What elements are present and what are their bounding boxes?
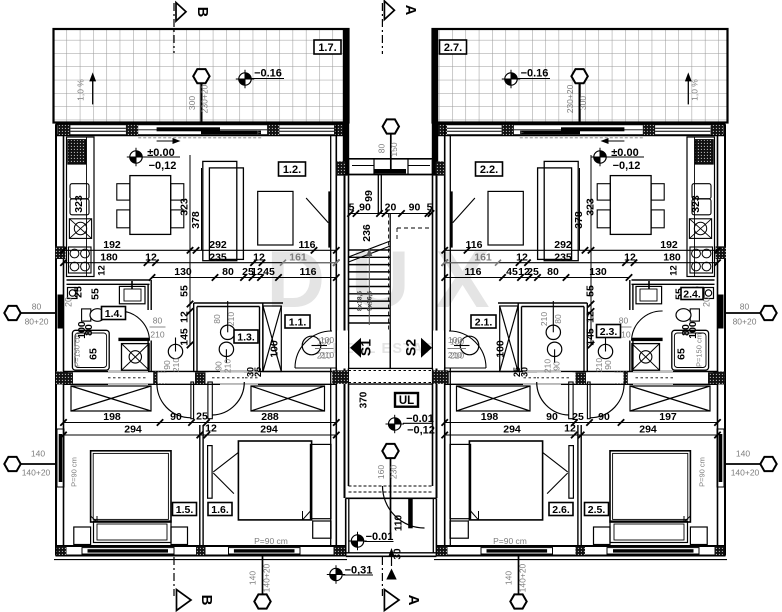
svg-text:210: 210	[594, 358, 604, 372]
svg-text:140+20: 140+20	[262, 563, 272, 592]
dim row 1 (192 292 116)	[445, 249, 718, 251]
porch entry area	[349, 485, 433, 487]
sofa	[544, 161, 578, 260]
svg-text:25: 25	[196, 411, 208, 423]
bedroom window left wall	[57, 429, 64, 487]
svg-text:1.2.: 1.2.	[283, 164, 301, 176]
dim row 2 (180 12 235 12 161)	[64, 262, 337, 264]
level -0.16 left terrace	[236, 70, 254, 88]
top outer wall	[436, 123, 726, 125]
svg-text:140+20: 140+20	[518, 563, 528, 592]
hexagon marker left terrace	[200, 84, 202, 123]
svg-text:65: 65	[88, 348, 100, 360]
svg-text:90: 90	[546, 411, 558, 423]
level +-0.00 -0.12 left living	[127, 148, 145, 166]
svg-text:130: 130	[589, 266, 607, 278]
door openings dashed in under-wall	[108, 371, 148, 373]
svg-text:25: 25	[572, 411, 584, 423]
level -0.01 porch	[348, 532, 366, 550]
dim 110 porch	[406, 486, 408, 546]
svg-text:180: 180	[663, 251, 681, 263]
wall band below landing	[349, 367, 433, 369]
WC toilet	[82, 309, 91, 321]
svg-text:80+20: 80+20	[733, 317, 757, 327]
room label 1.3	[234, 330, 258, 343]
svg-text:161: 161	[474, 251, 492, 263]
svg-text:F: F	[257, 130, 261, 136]
top wall window living	[447, 127, 502, 129]
wardrobe bedroom 1	[71, 386, 151, 411]
svg-text:80: 80	[377, 144, 387, 154]
svg-text:25: 25	[253, 367, 263, 377]
shower	[122, 344, 150, 371]
svg-text:150: 150	[389, 142, 399, 156]
porch bottom	[346, 552, 437, 554]
stair walk line arrow	[368, 252, 370, 325]
svg-text:323: 323	[585, 198, 597, 216]
svg-text:1,0 %: 1,0 %	[76, 79, 86, 101]
door from stair landing to hall	[337, 331, 348, 369]
svg-text:1.6.: 1.6.	[211, 504, 229, 516]
svg-text:116: 116	[299, 239, 316, 251]
terrace outline left	[54, 29, 349, 123]
dim row 3 (130 80 25 12 45 116)	[445, 277, 629, 279]
piers at stair doors	[332, 371, 345, 383]
dining table	[610, 176, 651, 235]
hall closet crossed	[263, 306, 281, 372]
svg-text:−0,12: −0,12	[613, 160, 641, 172]
fridge	[68, 140, 86, 165]
room label 2.7	[440, 40, 467, 54]
svg-text:80: 80	[222, 266, 234, 278]
svg-text:288: 288	[261, 411, 279, 423]
bath2 washbasin circle	[546, 325, 560, 339]
top wall piers	[57, 125, 70, 135]
section line A bottom	[381, 557, 383, 596]
entry threshold verticals	[373, 159, 375, 175]
stair upper dim line	[349, 213, 433, 215]
right wall piers	[336, 161, 348, 175]
svg-text:90: 90	[170, 411, 182, 423]
bed bedroom 2	[238, 441, 311, 520]
door from stair landing to hall	[433, 331, 444, 369]
level +-0.00 -0.12 right living	[591, 148, 609, 166]
svg-text:12: 12	[251, 266, 263, 278]
bottom outer wall	[436, 545, 726, 547]
stair well inner wall	[377, 175, 379, 214]
pillow corner	[684, 516, 690, 522]
doormat UL	[395, 393, 418, 407]
svg-text:80: 80	[212, 314, 222, 324]
svg-text:236: 236	[361, 224, 373, 242]
svg-text:−0.16: −0.16	[521, 68, 549, 80]
arrow entry right living	[604, 140, 624, 142]
bedroom 2 bottom window	[229, 548, 301, 554]
section line B bottom	[173, 557, 175, 596]
hall circle fixture	[598, 344, 612, 358]
svg-text:55: 55	[90, 288, 102, 300]
bed bedroom 1	[91, 451, 171, 522]
top wall piers	[711, 125, 724, 135]
svg-text:80+20: 80+20	[25, 317, 49, 327]
svg-text:300: 300	[187, 96, 197, 110]
closet door bedroom 2	[569, 446, 574, 499]
wardrobe bedroom 2	[457, 386, 531, 411]
svg-text:P=90 cm: P=90 cm	[493, 536, 527, 546]
svg-text:235: 235	[209, 251, 227, 263]
svg-text:145: 145	[179, 328, 191, 346]
top wall sliding door	[157, 127, 220, 131]
svg-text:80: 80	[153, 316, 163, 326]
dim row bedrooms (198 90 25 288)	[64, 422, 337, 424]
ground line below building	[434, 559, 727, 561]
stair flight steps	[349, 249, 391, 251]
svg-text:12: 12	[624, 251, 636, 263]
svg-text:116: 116	[466, 239, 483, 251]
room label 1.6	[208, 503, 232, 516]
terrace slope arrow 1.0%	[92, 76, 94, 104]
svg-text:145: 145	[585, 328, 597, 346]
hexagon right wall upper	[725, 312, 761, 314]
svg-text:1.4.: 1.4.	[105, 308, 123, 320]
svg-text:B: B	[194, 7, 210, 17]
svg-text:80: 80	[553, 314, 563, 324]
bath2 washbasin circle	[221, 325, 235, 339]
svg-text:198: 198	[481, 411, 499, 423]
svg-text:S2: S2	[403, 339, 419, 356]
svg-text:378: 378	[190, 211, 202, 229]
svg-text:55: 55	[585, 285, 597, 297]
left wall pier	[56, 372, 68, 385]
svg-text:2.1.: 2.1.	[475, 316, 493, 328]
dim row bedrooms (198 90 25 288)	[445, 422, 718, 424]
washing machine	[72, 330, 109, 370]
svg-text:12: 12	[97, 265, 108, 276]
pillow corner 2	[471, 511, 479, 520]
svg-text:90: 90	[603, 360, 613, 370]
svg-text:140: 140	[736, 449, 750, 459]
room label 2.4	[681, 288, 703, 300]
top outer wall	[56, 123, 346, 125]
entry landing top band	[349, 158, 433, 160]
bath 2 walls	[193, 303, 195, 372]
interior wall under bath block	[64, 371, 337, 373]
svg-text:2.7.: 2.7.	[444, 42, 462, 54]
bath 2 walls	[586, 303, 588, 372]
svg-text:S1: S1	[358, 339, 374, 356]
door swing line living	[453, 198, 475, 223]
svg-text:80: 80	[740, 302, 750, 312]
closet door bedroom 2	[208, 446, 213, 499]
bath1 door arc	[632, 311, 663, 341]
kitchen upper cabinets	[70, 184, 89, 199]
svg-text:12: 12	[518, 266, 530, 278]
svg-text:210: 210	[223, 359, 233, 373]
svg-text:12: 12	[179, 311, 191, 323]
wall between bedrooms	[199, 425, 201, 546]
room label 2.2	[476, 162, 503, 176]
terrace outline right	[433, 29, 728, 123]
bedroom door arcs	[157, 382, 191, 418]
dashed insulation line under top wall	[519, 137, 643, 139]
level -0.16 right terrace	[502, 70, 520, 88]
bedroom 2 bottom window	[481, 548, 553, 554]
dim row 2 (180 12 235 12 161)	[445, 262, 718, 264]
svg-text:12: 12	[145, 251, 157, 263]
bath 1 right wall	[147, 284, 149, 310]
hall washbasin at stair door	[302, 336, 321, 355]
svg-text:A: A	[405, 595, 422, 606]
shower	[632, 344, 660, 371]
svg-text:30: 30	[393, 548, 404, 560]
svg-text:370: 370	[359, 391, 370, 408]
bedroom 1 bottom window	[82, 548, 174, 554]
washbasin cabinet	[636, 286, 662, 303]
boiler symbol	[704, 288, 714, 299]
svg-text:160: 160	[376, 465, 386, 479]
hexagon left wall upper	[20, 312, 56, 314]
section flag A bottom	[384, 590, 399, 611]
room label 1.1	[285, 315, 310, 328]
boiler symbol	[68, 288, 78, 299]
svg-text:12: 12	[669, 265, 680, 276]
svg-text:294: 294	[260, 424, 278, 436]
stove 4 burners	[69, 247, 92, 273]
landing piers	[340, 162, 346, 174]
svg-text:161: 161	[289, 251, 307, 263]
bedroom door openings in band	[588, 372, 624, 383]
top wall window kitchen	[70, 127, 126, 129]
svg-text:80: 80	[32, 302, 42, 312]
kitchen sink	[69, 219, 91, 239]
porch entry door leaf	[408, 498, 413, 528]
svg-text:80: 80	[83, 324, 95, 336]
bedroom door arcs	[590, 382, 624, 418]
svg-text:100: 100	[448, 335, 462, 345]
svg-text:1.5.: 1.5.	[176, 504, 194, 516]
svg-text:192: 192	[103, 239, 121, 251]
svg-text:UL: UL	[399, 395, 414, 407]
top wall window kitchen	[655, 127, 711, 129]
hexagon bottom left of porch	[262, 556, 264, 594]
pillow corner	[91, 516, 97, 522]
svg-text:140: 140	[248, 571, 258, 585]
hall washbasin at stair door	[460, 336, 479, 355]
svg-text:140: 140	[31, 449, 45, 459]
dim row 1 (192 292 116)	[64, 249, 337, 251]
svg-text:323: 323	[179, 198, 191, 216]
room label 1.5	[173, 503, 197, 516]
S1 arrow	[350, 338, 361, 358]
svg-text:20: 20	[385, 202, 397, 214]
stair landing S1 S2	[389, 330, 391, 384]
bottom wall piers	[57, 546, 67, 555]
svg-text:−0.16: −0.16	[254, 68, 282, 80]
hall closet crossed	[500, 306, 518, 372]
svg-text:210: 210	[150, 330, 164, 340]
svg-text:100: 100	[320, 335, 334, 345]
svg-text:12: 12	[205, 423, 217, 435]
svg-text:130: 130	[174, 266, 192, 278]
svg-text:210: 210	[448, 350, 462, 360]
hexagon bottom right of porch	[518, 556, 520, 594]
svg-text:P=90 cm: P=90 cm	[698, 457, 707, 487]
hexagon marker right terrace	[578, 84, 580, 123]
svg-text:210: 210	[539, 312, 549, 326]
dashed insulation line under top wall	[138, 137, 262, 139]
section flag A top	[384, 1, 394, 20]
svg-text:235: 235	[554, 251, 572, 263]
bedroom door leafs	[587, 382, 590, 419]
svg-text:55: 55	[179, 285, 191, 297]
svg-text:20: 20	[64, 297, 74, 307]
left outer wall	[55, 124, 57, 555]
upper flight dashed	[388, 214, 390, 331]
svg-text:A: A	[402, 5, 418, 16]
bed bedroom 1	[610, 451, 690, 522]
svg-text:2.3.: 2.3.	[600, 326, 618, 338]
level -0.31 below porch	[327, 565, 345, 583]
dining table	[130, 176, 171, 235]
right wall to shaft	[444, 124, 446, 546]
svg-text:2.6.: 2.6.	[552, 504, 570, 516]
left wall pier	[713, 372, 725, 385]
vertical dims near halls	[590, 250, 592, 345]
svg-text:292: 292	[554, 239, 572, 251]
bath 1 top wall	[632, 279, 715, 281]
sofa	[203, 161, 237, 260]
entry door in left wall	[58, 295, 65, 329]
svg-text:100: 100	[268, 340, 280, 358]
section flag B top	[176, 3, 186, 22]
svg-text:25: 25	[73, 286, 85, 298]
svg-text:1.3.: 1.3.	[237, 331, 255, 343]
WC toilet	[690, 309, 699, 321]
room label 1.7	[314, 40, 341, 54]
bath 1 right wall	[632, 284, 634, 310]
svg-text:12: 12	[564, 423, 576, 435]
porch door arc	[383, 486, 425, 528]
svg-text:140: 140	[504, 571, 514, 585]
chairs	[651, 184, 664, 200]
svg-text:90: 90	[409, 202, 421, 214]
bath2 wc circle	[219, 342, 233, 356]
entry door in left wall	[717, 295, 724, 329]
wardrobe bedroom 2	[251, 386, 325, 411]
svg-text:90: 90	[598, 411, 610, 423]
bedroom window left wall	[717, 429, 724, 487]
svg-text:65: 65	[676, 348, 688, 360]
svg-text:323: 323	[73, 195, 85, 213]
svg-text:90: 90	[552, 361, 562, 371]
room label 2.1	[471, 315, 496, 328]
chairs	[117, 184, 130, 200]
svg-text:2.4.: 2.4.	[683, 288, 701, 300]
washing machine	[672, 330, 709, 370]
hexagon right wall lower	[725, 463, 761, 465]
washbasin cabinet	[119, 286, 145, 303]
coffee table	[488, 191, 523, 245]
svg-text:300: 300	[578, 96, 588, 110]
bedroom door openings in band	[158, 372, 194, 383]
svg-text:80: 80	[680, 324, 692, 336]
svg-text:2.5.: 2.5.	[588, 504, 606, 516]
kitchen upper cabinets	[692, 184, 711, 199]
svg-text:25: 25	[512, 367, 522, 377]
svg-text:210: 210	[226, 312, 236, 326]
svg-text:210: 210	[171, 358, 181, 372]
svg-text:12: 12	[516, 251, 528, 263]
svg-text:210: 210	[320, 350, 334, 360]
svg-text:12: 12	[253, 251, 265, 263]
kitchen sink	[689, 219, 711, 239]
room label 1.4	[102, 307, 126, 320]
nightstands	[74, 527, 91, 545]
S2 arrow	[421, 338, 432, 358]
TV board	[328, 191, 331, 247]
door openings dashed in under-wall	[633, 371, 673, 373]
hexagon door corridor	[390, 459, 392, 540]
svg-text:210: 210	[543, 359, 553, 373]
svg-text:1.7.: 1.7.	[318, 42, 336, 54]
svg-text:198: 198	[103, 411, 121, 423]
stove 4 burners	[690, 247, 713, 273]
svg-text:P=90 cm: P=90 cm	[70, 457, 79, 487]
kitchen cabinets strip	[687, 137, 715, 277]
top wall window living	[279, 127, 334, 129]
svg-text:230: 230	[389, 465, 399, 479]
svg-text:116: 116	[300, 266, 317, 278]
stair break line	[349, 246, 391, 262]
svg-text:9x16,5: 9x16,5	[367, 291, 374, 311]
svg-text:45: 45	[263, 266, 275, 278]
section line B top	[173, 3, 175, 53]
level marker -0.01 -0.12 corridor	[386, 415, 404, 433]
bath2 wc circle	[547, 342, 561, 356]
dim row bedrooms (294 12 294)	[64, 434, 337, 436]
right wall to shaft	[335, 124, 337, 546]
svg-text:192: 192	[660, 239, 678, 251]
svg-text:45: 45	[506, 266, 518, 278]
entry arrow up	[391, 551, 393, 566]
svg-text:140+20: 140+20	[22, 468, 51, 478]
svg-text:−0,12: −0,12	[407, 425, 435, 437]
arrow entry left living	[157, 140, 177, 142]
bath 1 top wall	[67, 279, 150, 281]
vertical dim 323 378	[590, 155, 592, 250]
svg-text:230+20: 230+20	[565, 84, 575, 113]
svg-text:197: 197	[659, 411, 677, 423]
svg-text:294: 294	[124, 424, 142, 436]
svg-text:230+20: 230+20	[200, 84, 210, 113]
ground line below building	[54, 559, 347, 561]
svg-text:100: 100	[495, 340, 507, 358]
fridge	[695, 140, 713, 165]
svg-text:99: 99	[363, 190, 375, 202]
top wall sliding door	[561, 127, 624, 131]
kitchen cabinets strip	[67, 137, 95, 277]
bottom wall piers	[715, 546, 725, 555]
dim row bedrooms (294 12 294)	[445, 434, 718, 436]
porch side walls	[345, 498, 347, 556]
bottom outer wall	[56, 545, 346, 547]
left outer wall	[724, 124, 726, 555]
svg-text:90: 90	[359, 202, 371, 214]
svg-text:116: 116	[465, 266, 482, 278]
right wall piers	[433, 161, 445, 175]
hexagon entry door top middle	[390, 134, 392, 172]
vertical dims near halls	[189, 250, 191, 345]
